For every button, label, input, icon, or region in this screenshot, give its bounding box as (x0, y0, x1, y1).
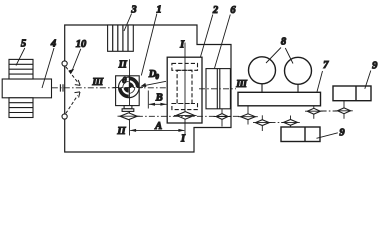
label 9 bottom leader (317, 133, 338, 139)
label 6 leader (209, 15, 230, 88)
svg-text:0: 0 (156, 74, 160, 81)
svg-text:B: B (155, 92, 163, 103)
support diamond under bar right (305, 106, 323, 119)
machine bed outline (65, 25, 231, 152)
svg-text:I: I (179, 39, 185, 50)
workhead housing 1 (116, 76, 140, 106)
dimension B arrow line (149, 103, 167, 105)
measuring bar 7 (238, 92, 321, 106)
workpiece quadrant fill bottom-left (119, 87, 129, 97)
svg-text:7: 7 (323, 60, 329, 71)
pivot circle bottom on bed edge (62, 114, 67, 119)
wheel-head housing 2 (167, 57, 202, 123)
workpiece inner circle dark arcs (123, 81, 129, 87)
axis III across workpiece (113, 87, 143, 89)
label 1 leader (141, 14, 157, 76)
svg-text:5: 5 (21, 39, 26, 50)
gauge stem right (297, 84, 299, 92)
dimension B extension line (147, 91, 149, 109)
label 2 leader (200, 15, 213, 58)
gauge circle 8 right (285, 57, 312, 84)
label 9 top leader (365, 71, 371, 89)
label 4 leader (42, 48, 54, 88)
chain dash-dot b-c (270, 122, 284, 124)
cylinder support diamond (216, 114, 228, 120)
svg-text:3: 3 (130, 4, 136, 15)
workpiece inner circle white arcs (129, 81, 135, 87)
workhead pedestal flange (122, 109, 134, 112)
svg-text:θ: θ (122, 76, 127, 85)
motor shaft 4 (2, 79, 51, 98)
hidden spool bottom flange (dashed) (172, 104, 198, 110)
support diamond under counter box (335, 101, 353, 119)
gauge stem left (261, 84, 263, 93)
hidden spool top flange (dashed) (172, 63, 198, 70)
svg-text:2: 2 (212, 5, 219, 16)
svg-text:9: 9 (372, 61, 378, 72)
pivot circle top on bed edge (62, 61, 67, 66)
svg-text:4: 4 (50, 39, 56, 50)
svg-text:III: III (91, 77, 104, 88)
svg-text:10: 10 (76, 39, 87, 50)
feed chain axis dash-dot (137, 115, 241, 117)
piston double line (217, 69, 220, 109)
wheel-head support diamond (176, 112, 194, 120)
svg-text:III: III (235, 79, 248, 90)
feed cylinder 6 (206, 69, 230, 109)
svg-text:II: II (116, 126, 126, 137)
svg-text:9: 9 (339, 127, 345, 138)
label 10 leader with arrow (71, 49, 81, 73)
dresser block 3 (108, 25, 134, 51)
axis II vertical line (129, 59, 131, 135)
gauge circle 8 left (249, 57, 276, 84)
label 3 leader (124, 14, 132, 32)
workhead pedestal stem (124, 106, 132, 109)
chain dash-dot d-e (321, 110, 338, 112)
workpiece circle (119, 77, 140, 98)
counter box 9 bottom (281, 127, 320, 142)
cylinder support stem (221, 109, 223, 127)
motor stator lower (9, 98, 33, 118)
support diamond under bar left (238, 106, 258, 125)
coupling ticks (60, 84, 63, 91)
svg-text:A: A (154, 121, 162, 132)
counter box 9 top (333, 86, 371, 101)
label 7 leader (317, 71, 323, 92)
hidden spool stem (dashed) (177, 70, 192, 103)
dimension A arrow line (130, 129, 184, 131)
workpiece quadrant fill top-right (129, 77, 139, 87)
swing link dashed upper (66, 67, 78, 82)
workhead support diamond (120, 113, 137, 120)
motor stator upper 5 (9, 59, 33, 79)
axis III right segment (199, 88, 236, 90)
label 8 leaders (266, 48, 293, 64)
svg-text:8: 8 (281, 36, 287, 47)
support diamond chain b (253, 115, 272, 131)
svg-text:6: 6 (230, 5, 236, 16)
support diamond chain c (281, 116, 300, 128)
swing link dashed lower (66, 96, 78, 114)
dimension D0 leader arrow (141, 81, 166, 86)
label 5 leader (16, 48, 25, 66)
svg-text:II: II (118, 60, 128, 71)
shaft axis III dash-dot (motor to wheel-head) (52, 87, 167, 89)
axis I vertical centerline (184, 43, 186, 136)
svg-text:1: 1 (156, 4, 161, 15)
